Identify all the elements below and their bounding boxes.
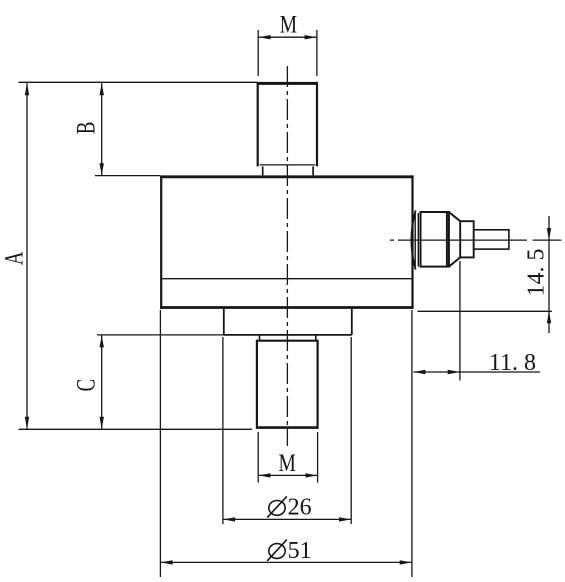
extension line B bottom — [95, 175, 160, 177]
bottom stud — [256, 340, 319, 429]
dimension dia26 — [223, 337, 351, 524]
dimension A — [26, 83, 28, 429]
dimension C — [101, 335, 103, 428]
label dia26 — [267, 495, 311, 521]
svg-text:C: C — [72, 379, 101, 391]
svg-text:51: 51 — [288, 538, 312, 564]
connector knurled body — [421, 212, 449, 267]
dimension 14.5 — [418, 216, 562, 333]
horizontal centerline — [390, 239, 527, 241]
top stud neck — [263, 166, 313, 175]
svg-text:M: M — [279, 449, 296, 477]
connector small collar — [460, 221, 474, 257]
extension line top (A/B) — [19, 81, 258, 83]
svg-text:26: 26 — [288, 495, 312, 521]
body main rectangle — [160, 175, 414, 308]
connector taper — [449, 212, 460, 267]
svg-text:B: B — [72, 122, 101, 134]
connector collar lines — [415, 213, 418, 267]
svg-text:A: A — [0, 251, 28, 265]
extension line C top — [97, 334, 224, 336]
svg-text:14. 5: 14. 5 — [523, 249, 549, 297]
svg-text:11. 8: 11. 8 — [489, 350, 536, 376]
body divider line — [161, 278, 413, 280]
svg-text:M: M — [280, 10, 297, 38]
label dia51 — [267, 538, 311, 564]
dimension 11.8 — [413, 261, 540, 381]
dimension M bottom — [258, 432, 317, 483]
bottom step plate — [224, 309, 352, 335]
bottom stud neck — [260, 335, 316, 341]
dimension dia51 — [160, 310, 412, 577]
top stud — [257, 82, 318, 166]
extension line bottom (A/C) — [19, 428, 253, 430]
connector pin — [474, 230, 509, 249]
dimension B — [101, 83, 103, 175]
dimension M top — [258, 30, 317, 76]
vertical centerline — [286, 66, 288, 446]
connector flange arc — [411, 210, 415, 269]
